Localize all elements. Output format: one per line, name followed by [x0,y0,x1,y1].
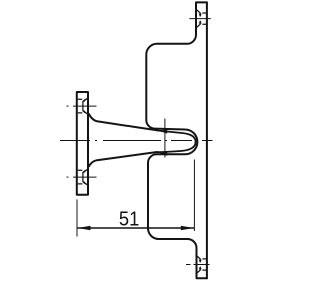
svg-text:51: 51 [119,209,139,231]
